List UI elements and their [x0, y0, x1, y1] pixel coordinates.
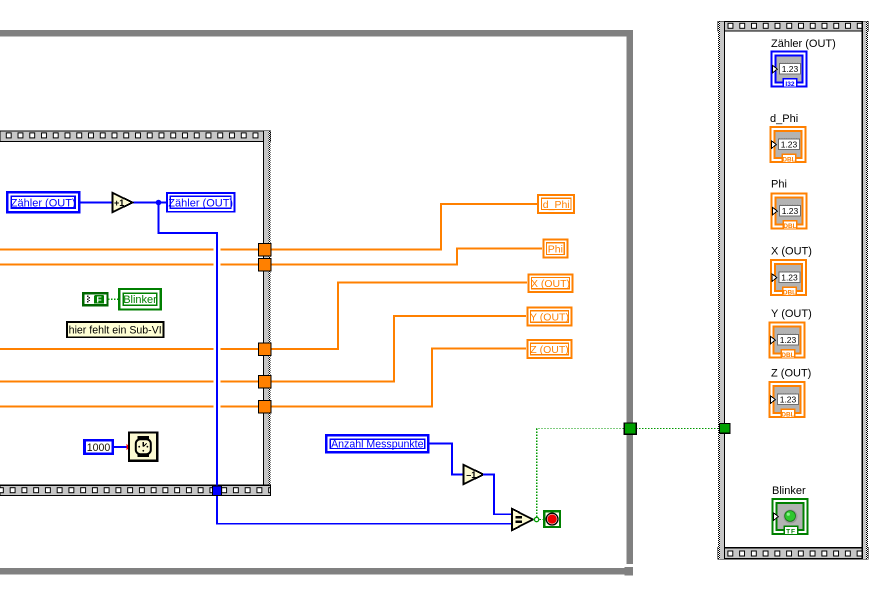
- svg-text:d_Phi: d_Phi: [543, 199, 570, 211]
- svg-text:DBL: DBL: [783, 223, 796, 230]
- label X (OUT): [528, 274, 572, 292]
- svg-text:X (OUT): X (OUT): [771, 246, 812, 258]
- svg-text:Zähler (OUT): Zähler (OUT): [771, 38, 836, 50]
- svg-text:DBL: DBL: [782, 156, 795, 163]
- svg-text:Blinker: Blinker: [772, 485, 806, 497]
- indicator terminal d_Phi DBL: [771, 127, 806, 163]
- green tunnel on right panel border: [720, 424, 730, 434]
- svg-text:–1: –1: [466, 470, 476, 480]
- decrement node -1: [464, 465, 484, 484]
- outer structure frame top bar: [0, 30, 633, 37]
- equal? node: [512, 509, 533, 530]
- orange wire Y (OUT): [0, 316, 526, 382]
- outer structure frame corner handle: [625, 567, 634, 576]
- orange tunnel Z: [259, 401, 272, 414]
- green dotted wire between frames: [636, 428, 720, 430]
- svg-text:DBL: DBL: [781, 352, 794, 359]
- right panel loop bottom border: [718, 548, 868, 559]
- orange tunnel X: [259, 343, 272, 356]
- orange wire X (OUT): [0, 283, 527, 350]
- blue wire 1000 to wait: [114, 446, 127, 448]
- local variable Blinker: [119, 289, 161, 309]
- blue wire -1 to equal: [483, 475, 512, 515]
- blue wire +1 to local: [132, 202, 167, 204]
- label d_Phi: [538, 195, 574, 213]
- free label hier fehlt ein Sub-VI: [67, 322, 164, 337]
- increment node +1: [113, 193, 133, 212]
- green dotted wire equal to junction: [533, 519, 535, 521]
- orange tunnel Phi: [259, 259, 272, 272]
- svg-text:DBL: DBL: [783, 289, 796, 296]
- svg-text:Z (OUT): Z (OUT): [771, 368, 811, 380]
- wire crossing gaps on orange wires at blue vertical: [214, 250, 221, 407]
- blue wire junction dot: [156, 200, 162, 206]
- indicator terminal X (OUT) DBL: [771, 260, 806, 296]
- svg-text:X (OUT): X (OUT): [531, 278, 570, 290]
- while loop top border: [0, 131, 271, 141]
- right panel loop top border: [718, 21, 868, 31]
- svg-text:1000: 1000: [87, 442, 111, 454]
- green tunnel on outer frame: [624, 423, 636, 434]
- green tunnel on right panel border (redraw above border): [720, 424, 730, 434]
- indicator terminal Blinker TF: [773, 499, 808, 535]
- orange tunnel Y: [259, 376, 272, 389]
- svg-text:Zähler (OUT): Zähler (OUT): [168, 197, 233, 209]
- orange wire d_Phi: [0, 204, 537, 250]
- indicator terminal Z (OUT) DBL: [770, 382, 805, 418]
- orange tunnel d_Phi: [259, 244, 272, 257]
- svg-text:DBL: DBL: [781, 411, 794, 418]
- numeric constant 1000: [84, 440, 112, 454]
- green dotted wire up to tunnel: [537, 429, 625, 517]
- local variable Zähler (OUT) read: [167, 193, 235, 212]
- orange wire Z (OUT): [0, 349, 526, 407]
- svg-text:Anzahl Messpunkte: Anzahl Messpunkte: [331, 438, 424, 450]
- wait (ms) node: [129, 432, 157, 460]
- svg-text:TF: TF: [786, 528, 796, 535]
- blue wire down from junction: [159, 203, 513, 524]
- while loop right border: [263, 131, 271, 496]
- blue wire Anzahl to -1: [428, 444, 463, 475]
- right panel loop left border: [718, 21, 725, 559]
- svg-text:d_Phi: d_Phi: [770, 113, 798, 125]
- label Phi: [543, 240, 567, 258]
- boolean constant F: [83, 293, 107, 305]
- svg-text:Blinker: Blinker: [123, 294, 157, 306]
- svg-text:Phi: Phi: [548, 244, 563, 256]
- right panel loop right border: [862, 21, 869, 559]
- svg-text:Zähler (OUT): Zähler (OUT): [11, 197, 76, 209]
- orange wire Phi: [0, 249, 542, 265]
- svg-text:Y (OUT): Y (OUT): [530, 312, 569, 324]
- svg-text:Y (OUT): Y (OUT): [771, 308, 812, 320]
- svg-text:+1: +1: [114, 198, 124, 208]
- green dotted wire constant to Blinker: [108, 298, 119, 300]
- local variable Zähler (OUT) write: [7, 192, 79, 212]
- blue wire local to +1: [79, 202, 112, 204]
- red coercion arrow at wait input: [126, 444, 130, 451]
- outer structure frame bottom bar: [0, 568, 633, 575]
- outer structure frame right bar: [627, 30, 634, 564]
- blue tunnel on loop bottom border: [213, 486, 222, 495]
- svg-text:Z (OUT): Z (OUT): [530, 344, 569, 356]
- indicator terminal Phi DBL: [772, 194, 807, 230]
- control Anzahl Messpunkte: [326, 435, 428, 452]
- label Z (OUT): [527, 340, 571, 358]
- svg-text:Phi: Phi: [771, 179, 787, 191]
- green dotted wire junction to stop: [540, 519, 545, 521]
- boolean wire junction ring: [534, 517, 538, 521]
- stop button: [544, 511, 560, 527]
- svg-text:hier fehlt ein Sub-VI: hier fehlt ein Sub-VI: [69, 325, 162, 337]
- indicator terminal Y (OUT) DBL: [770, 323, 805, 359]
- svg-text:F: F: [96, 295, 101, 305]
- indicator terminal Zähler (OUT) I32: [772, 52, 807, 88]
- label Y (OUT): [527, 308, 571, 326]
- svg-text:I32: I32: [785, 81, 794, 88]
- while loop bottom border: [0, 485, 271, 495]
